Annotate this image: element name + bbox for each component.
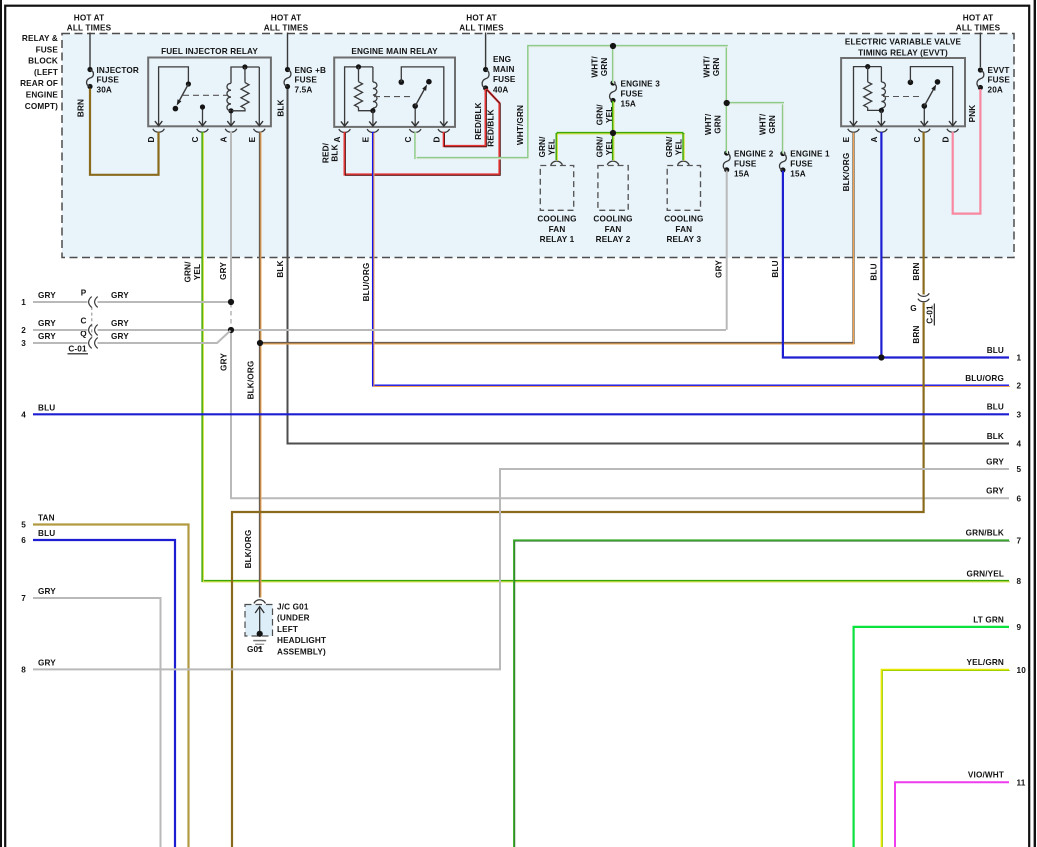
svg-text:5: 5 [21, 521, 26, 530]
wire: GRY from ENGINE 2 FUSE to pin 2 row [714, 171, 726, 330]
svg-text:GRY: GRY [111, 291, 129, 300]
svg-text:COOLING: COOLING [664, 215, 703, 224]
svg-text:ENGINE 2: ENGINE 2 [734, 149, 774, 158]
ground G01 [247, 631, 266, 654]
svg-text:(UNDER: (UNDER [277, 614, 310, 623]
node: GRN/YEL junction [610, 130, 616, 136]
svg-text:VIO/WHT: VIO/WHT [968, 771, 1004, 780]
node: junction pin1/GRY [228, 299, 234, 305]
relay U1: FUEL INJECTOR RELAY [147, 47, 271, 143]
svg-text:GRN/: GRN/ [538, 136, 547, 158]
svg-text:P: P [81, 289, 87, 298]
svg-text:FUSE: FUSE [988, 76, 1011, 85]
svg-text:A: A [870, 136, 879, 142]
svg-text:BRN: BRN [912, 325, 921, 343]
svg-text:BLK: BLK [987, 432, 1004, 441]
svg-text:WHT/: WHT/ [704, 113, 713, 135]
node: WHT/GRN junction at ENGINE 3 fuse [610, 43, 616, 49]
svg-text:GRN/: GRN/ [665, 136, 674, 158]
node: junction pin2/GRY [228, 327, 234, 333]
wire: RED/BLK from U2 pin D to ENG MAIN FUSE [444, 89, 487, 147]
svg-text:30A: 30A [97, 85, 112, 94]
svg-text:WHT/GRN: WHT/GRN [516, 105, 525, 145]
wire: BLU from U3 pin A to terminal 1 row [869, 132, 884, 361]
svg-text:BLK: BLK [276, 260, 285, 277]
wire: BRN from U3 pin C through connector C-01 to bottom [232, 132, 924, 847]
power feed: HOT AT ALL TIMES (right) [956, 14, 1001, 68]
svg-text:ENGINE 3: ENGINE 3 [621, 79, 661, 88]
svg-text:ALL TIMES: ALL TIMES [956, 24, 1001, 33]
svg-text:40A: 40A [493, 85, 508, 94]
svg-text:G01: G01 [247, 645, 263, 654]
svg-text:D: D [147, 136, 156, 142]
label: RELAY & FUSE BLOCK (LEFT REAR OF ENGINE COMPT) [20, 34, 58, 111]
svg-text:4: 4 [1017, 440, 1022, 449]
svg-text:7.5A: 7.5A [295, 85, 313, 94]
svg-text:RELAY 2: RELAY 2 [596, 235, 631, 244]
fuse F5: ENGINE 3 FUSE 15A [610, 79, 661, 108]
svg-text:TIMING RELAY (EVVT): TIMING RELAY (EVVT) [858, 48, 948, 57]
svg-text:GRY: GRY [986, 457, 1004, 466]
svg-text:ENG: ENG [493, 55, 511, 64]
node: junction pin3/BLK-ORG row [257, 340, 263, 346]
svg-text:GRN: GRN [768, 115, 777, 134]
svg-text:FUEL INJECTOR RELAY: FUEL INJECTOR RELAY [161, 47, 258, 56]
fuse F1: INJECTOR FUSE 30A [87, 66, 139, 95]
fuse F7: ENGINE 1 FUSE 15A [779, 149, 830, 178]
svg-text:FUSE: FUSE [790, 160, 813, 169]
svg-text:D: D [941, 136, 950, 142]
svg-text:YEL: YEL [605, 107, 614, 123]
svg-text:REAR OF: REAR OF [20, 79, 58, 88]
svg-text:HOT AT: HOT AT [466, 14, 496, 23]
wire: BLU from ENGINE 1 FUSE to terminal 1 (right) [771, 171, 1009, 358]
svg-text:5: 5 [1017, 465, 1022, 474]
wire: GRN/BLK riser to terminal 7 (right) [514, 540, 1010, 847]
relay U2: ENGINE MAIN RELAY [333, 47, 455, 143]
wire: WHT/GRN from U2 pin C to engine fuses [415, 43, 783, 159]
cooling fan relay 1 [537, 161, 576, 244]
svg-text:D: D [432, 136, 441, 142]
svg-text:GRY: GRY [111, 332, 129, 341]
svg-text:FUSE: FUSE [295, 76, 318, 85]
svg-text:RED/BLK: RED/BLK [474, 102, 483, 139]
svg-text:TAN: TAN [38, 514, 55, 523]
svg-text:COOLING: COOLING [537, 215, 576, 224]
wire: VIO/WHT riser to terminal 11 (right) [895, 782, 1009, 847]
svg-text:FAN: FAN [549, 225, 566, 234]
svg-text:GRN/: GRN/ [183, 261, 192, 283]
svg-text:3: 3 [21, 339, 26, 348]
svg-text:INJECTOR: INJECTOR [97, 66, 139, 75]
wire: PNK from U3 pin D to EVVT FUSE [953, 89, 981, 214]
svg-text:GRY: GRY [219, 262, 228, 280]
relay U3: ELECTRIC VARIABLE VALVE TIMING RELAY (EVVT) [841, 38, 965, 143]
svg-text:(LEFT: (LEFT [34, 68, 58, 77]
relay & fuse block enclosure (dashed) [62, 34, 1014, 258]
label: J/C G01 (UNDER LEFT HEADLIGHT ASSEMBLY) [277, 603, 326, 657]
svg-text:7: 7 [1017, 537, 1022, 546]
svg-text:BLU/ORG: BLU/ORG [965, 374, 1004, 383]
power feed: HOT AT ALL TIMES (mid) [459, 14, 504, 68]
node: BLU junction on terminal 1 row [878, 354, 884, 360]
svg-text:1: 1 [1017, 354, 1022, 363]
wire: BLK/ORG branch row to EVVT relay pin E [260, 132, 854, 344]
svg-text:HOT AT: HOT AT [74, 14, 104, 23]
svg-text:ENG +B: ENG +B [295, 66, 327, 75]
svg-text:BLU: BLU [38, 403, 55, 412]
svg-text:FAN: FAN [675, 225, 692, 234]
svg-text:BLK/ORG: BLK/ORG [246, 361, 255, 400]
svg-text:15A: 15A [790, 170, 805, 179]
svg-text:RELAY 1: RELAY 1 [540, 235, 575, 244]
fuse F2: ENG +B FUSE 7.5A [284, 66, 326, 95]
svg-text:GRN/YEL: GRN/YEL [967, 569, 1004, 578]
svg-text:HOT AT: HOT AT [963, 14, 993, 23]
svg-text:3: 3 [1017, 411, 1022, 420]
svg-text:WHT/: WHT/ [758, 113, 767, 135]
svg-text:C: C [913, 136, 922, 142]
svg-text:E: E [248, 136, 257, 142]
svg-text:GRY: GRY [38, 291, 56, 300]
svg-text:MAIN: MAIN [493, 65, 515, 74]
svg-text:YEL: YEL [193, 264, 202, 280]
cooling fan relay 2 [593, 161, 632, 244]
svg-text:GRY: GRY [714, 260, 723, 278]
svg-text:YEL: YEL [605, 139, 614, 155]
svg-text:RELAY 3: RELAY 3 [666, 235, 701, 244]
svg-text:GRY: GRY [38, 319, 56, 328]
svg-text:C: C [80, 317, 86, 326]
wire: BLK from ENG +B FUSE to terminal 4 (right) [276, 89, 1009, 444]
svg-text:8: 8 [1017, 577, 1022, 586]
svg-text:ENGINE: ENGINE [26, 91, 59, 100]
svg-text:7: 7 [21, 594, 26, 603]
svg-text:YEL: YEL [674, 139, 683, 155]
svg-text:8: 8 [21, 665, 26, 674]
svg-text:RED/: RED/ [321, 142, 330, 163]
svg-text:C-01: C-01 [68, 345, 87, 354]
svg-text:BLU/ORG: BLU/ORG [362, 263, 371, 302]
svg-text:GRN: GRN [713, 115, 722, 134]
svg-text:BLK/ORG: BLK/ORG [842, 153, 851, 192]
svg-text:HOT AT: HOT AT [271, 14, 301, 23]
svg-text:WHT/: WHT/ [702, 56, 711, 78]
svg-text:FUSE: FUSE [734, 160, 757, 169]
svg-text:COOLING: COOLING [593, 215, 632, 224]
connector C-01 pins P/C/Q (left) [68, 289, 98, 354]
svg-text:COMPT): COMPT) [25, 102, 58, 111]
wire: BRN from INJECTOR FUSE to U1 pin D [76, 89, 158, 175]
svg-text:GRY: GRY [111, 319, 129, 328]
svg-text:6: 6 [1017, 495, 1022, 504]
node: WHT/GRN junction at ENGINE 1/2 fuses [724, 100, 730, 106]
junction connector J/C G01 [245, 600, 273, 636]
svg-text:ENGINE MAIN RELAY: ENGINE MAIN RELAY [351, 47, 438, 56]
svg-text:FUSE: FUSE [493, 75, 516, 84]
svg-text:9: 9 [1017, 623, 1022, 632]
svg-text:EVVT: EVVT [988, 66, 1010, 75]
wire: pin 8 GRY to terminal 5 (right) [21, 469, 1009, 674]
wire: GRY from U1 pin A to junctions / terminal 6 (right) [219, 132, 1009, 499]
wire: pin 4 BLU through to terminal 3 (right) [21, 403, 1009, 419]
wire: BLK/ORG from U1 pin E to J/C G01 [244, 132, 261, 598]
svg-text:BLU: BLU [987, 403, 1004, 412]
wire: pin 2 GRY (left) to ENGINE 2 FUSE [21, 319, 726, 335]
svg-text:4: 4 [21, 410, 26, 419]
svg-text:C: C [191, 136, 200, 142]
svg-text:A: A [220, 136, 229, 142]
svg-text:ALL TIMES: ALL TIMES [264, 24, 309, 33]
svg-text:E: E [842, 136, 851, 142]
svg-text:ALL TIMES: ALL TIMES [459, 24, 504, 33]
svg-text:BLU: BLU [771, 260, 780, 277]
svg-text:LT GRN: LT GRN [973, 615, 1004, 624]
svg-text:GRY: GRY [219, 353, 228, 371]
wire: pin 5 TAN down to bottom [21, 514, 188, 847]
fuse F6: ENGINE 2 FUSE 15A [723, 149, 773, 178]
svg-text:J/C G01: J/C G01 [277, 603, 309, 612]
wire: pin 3 GRY (left) [21, 331, 263, 349]
svg-text:BRN: BRN [76, 99, 85, 117]
svg-text:C-01: C-01 [925, 305, 934, 324]
svg-text:GRY: GRY [986, 487, 1004, 496]
wire: RED/BLK from U2 pin A to ENG MAIN FUSE [321, 89, 500, 175]
wire: BLU/ORG from U2 pin E to terminal 2 (right) [362, 132, 1010, 387]
svg-text:GRY: GRY [38, 332, 56, 341]
power feed: HOT AT ALL TIMES (mid-left) [264, 14, 309, 68]
svg-text:GRN/: GRN/ [595, 136, 604, 158]
svg-text:HEADLIGHT: HEADLIGHT [277, 636, 326, 645]
svg-text:C: C [404, 136, 413, 142]
svg-text:BRN: BRN [912, 262, 921, 280]
svg-text:PNK: PNK [968, 105, 977, 123]
svg-text:BLK: BLK [276, 99, 285, 116]
wire: GRN/YEL from ENGINE 3 FUSE to cooling fan relays [538, 101, 684, 161]
wire: pin 1 GRY (left) [21, 291, 234, 307]
wire: YEL/GRN riser to terminal 10 (right) [882, 670, 1010, 847]
svg-text:2: 2 [21, 326, 26, 335]
right-side terminal labels 1-11 [965, 346, 1026, 788]
svg-text:G: G [910, 304, 917, 313]
connector C-01 pin G (in-line, BRN wire) [910, 293, 934, 325]
svg-text:YEL/GRN: YEL/GRN [967, 658, 1004, 667]
svg-text:BLK/ORG: BLK/ORG [244, 530, 253, 569]
svg-text:2: 2 [1017, 382, 1022, 391]
svg-text:WHT/: WHT/ [590, 56, 599, 78]
svg-text:10: 10 [1017, 666, 1027, 675]
svg-text:RED/BLK: RED/BLK [486, 109, 495, 146]
wire: pin 6 BLU down to bottom [21, 529, 175, 847]
svg-text:BLK: BLK [330, 144, 339, 161]
svg-text:LEFT: LEFT [277, 625, 298, 634]
wire: pin 7 GRY down to bottom [21, 587, 160, 847]
svg-text:GRN: GRN [600, 58, 609, 77]
svg-text:FUSE: FUSE [621, 90, 644, 99]
svg-text:ELECTRIC VARIABLE VALVE: ELECTRIC VARIABLE VALVE [845, 38, 962, 47]
power feed: HOT AT ALL TIMES (left) [67, 14, 112, 68]
svg-text:GRN/BLK: GRN/BLK [966, 529, 1004, 538]
svg-text:20A: 20A [988, 85, 1003, 94]
svg-text:ALL TIMES: ALL TIMES [67, 24, 112, 33]
svg-text:ENGINE 1: ENGINE 1 [790, 149, 830, 158]
svg-text:BLOCK: BLOCK [28, 57, 58, 66]
svg-text:1: 1 [21, 298, 26, 307]
svg-text:GRN: GRN [712, 58, 721, 77]
svg-text:GRY: GRY [38, 658, 56, 667]
svg-text:BLU: BLU [38, 529, 55, 538]
fuse F3: ENG MAIN FUSE 40A [482, 55, 516, 95]
svg-text:FUSE: FUSE [36, 45, 59, 54]
cooling fan relay 3 [664, 161, 703, 244]
svg-text:GRN/: GRN/ [595, 104, 604, 126]
svg-text:FAN: FAN [605, 225, 622, 234]
svg-text:15A: 15A [734, 170, 749, 179]
svg-text:15A: 15A [621, 100, 636, 109]
svg-text:YEL: YEL [547, 139, 556, 155]
svg-text:GRY: GRY [38, 587, 56, 596]
svg-text:ASSEMBLY): ASSEMBLY) [277, 647, 326, 656]
wire: GRN/YEL from U1 pin C to terminal 8 (right) [183, 132, 1009, 582]
svg-text:E: E [362, 136, 371, 142]
svg-text:6: 6 [21, 536, 26, 545]
svg-text:BLU: BLU [987, 346, 1004, 355]
svg-text:11: 11 [1017, 778, 1026, 787]
fuse F4: EVVT FUSE 20A [977, 66, 1010, 95]
svg-text:BLU: BLU [869, 263, 878, 280]
svg-text:FUSE: FUSE [97, 76, 120, 85]
svg-text:A: A [333, 136, 342, 142]
wire: LT GRN riser to terminal 9 (right) [854, 627, 1009, 847]
svg-text:RELAY &: RELAY & [22, 34, 58, 43]
